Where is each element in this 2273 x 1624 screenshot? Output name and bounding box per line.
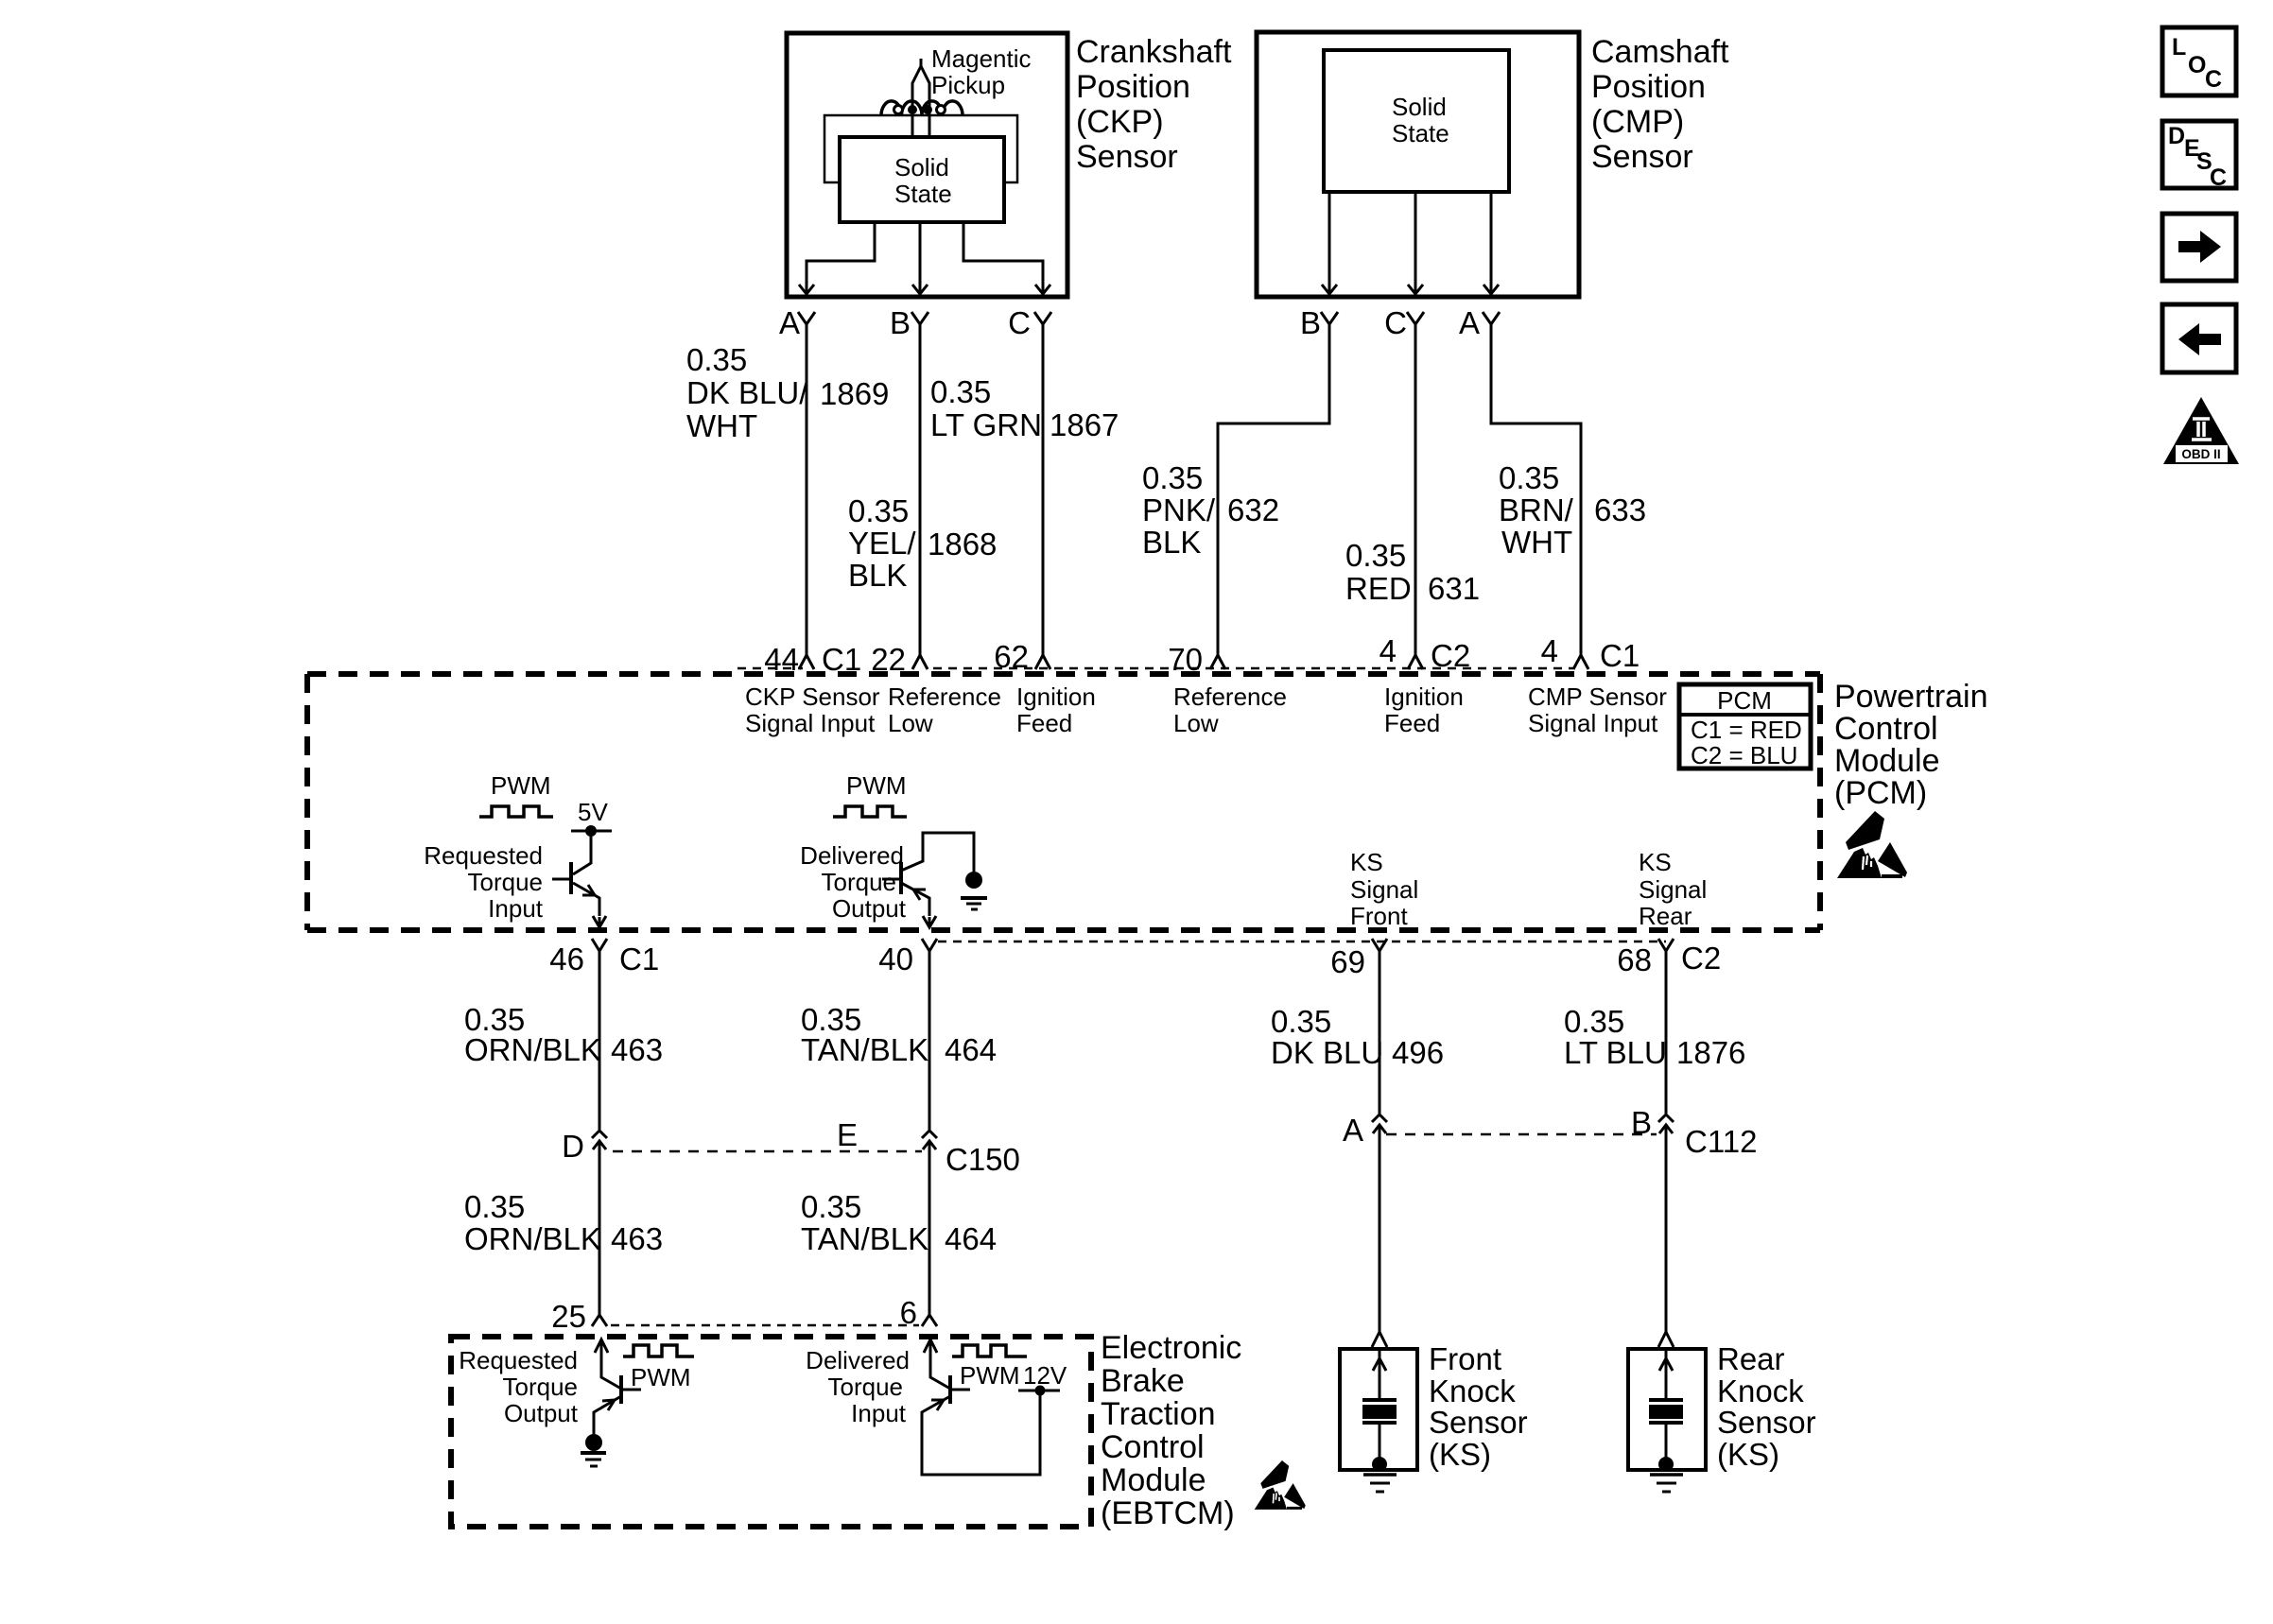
svg-text:CMP Sensor: CMP Sensor <box>1528 682 1667 711</box>
rear KS ground <box>1658 1457 1674 1472</box>
svg-text:6: 6 <box>900 1295 917 1330</box>
rear knock sensor box <box>1628 1349 1706 1470</box>
ESD symbol EBTCM <box>1255 1460 1306 1510</box>
svg-text:(KS): (KS) <box>1429 1437 1491 1472</box>
front KS internal wire with arrow <box>1373 1349 1386 1399</box>
svg-text:Torque: Torque <box>503 1373 579 1401</box>
pin A lambda at PCM C1 <box>799 655 814 669</box>
svg-text:DK BLU/: DK BLU/ <box>686 375 808 410</box>
svg-text:Signal: Signal <box>1350 875 1418 904</box>
svg-text:69: 69 <box>1330 944 1365 979</box>
svg-text:C112: C112 <box>1685 1124 1757 1159</box>
CKP pin A connector <box>798 312 815 655</box>
svg-text:BLK: BLK <box>1142 525 1201 560</box>
svg-text:464: 464 <box>945 1032 997 1067</box>
svg-text:RED: RED <box>1345 571 1412 606</box>
svg-text:Front: Front <box>1429 1341 1501 1376</box>
connector C112 pin B <box>1658 1114 1674 1122</box>
dashed line C112 A-B <box>1386 1133 1657 1136</box>
svg-text:Pickup: Pickup <box>931 71 1005 99</box>
connector C150 pin E <box>922 1131 937 1138</box>
svg-text:C: C <box>2205 66 2222 93</box>
svg-text:C: C <box>1384 305 1407 340</box>
icon: forward arrow box <box>2162 214 2236 281</box>
svg-text:1868: 1868 <box>928 527 997 561</box>
svg-text:Output: Output <box>832 894 907 923</box>
svg-text:Output: Output <box>504 1399 579 1427</box>
icon: DESC box <box>2162 121 2236 191</box>
svg-text:Knock: Knock <box>1717 1373 1804 1408</box>
svg-text:Traction: Traction <box>1101 1396 1216 1432</box>
svg-text:4: 4 <box>1541 633 1558 668</box>
svg-text:Torque: Torque <box>822 868 897 896</box>
ESD symbol PCM <box>1837 811 1907 878</box>
rear KS internal wire with arrow <box>1659 1349 1673 1399</box>
front KS ground <box>1372 1457 1387 1472</box>
svg-text:40: 40 <box>878 942 913 976</box>
pin 62 lambda <box>1035 655 1050 669</box>
svg-text:PWM: PWM <box>491 771 551 800</box>
svg-text:LT GRN: LT GRN <box>930 407 1042 442</box>
svg-text:0.35: 0.35 <box>686 342 747 377</box>
svg-text:C2 = BLU: C2 = BLU <box>1691 741 1797 769</box>
svg-text:Powertrain: Powertrain <box>1834 679 1988 715</box>
svg-text:KS: KS <box>1350 848 1383 876</box>
svg-text:Camshaft: Camshaft <box>1591 34 1729 70</box>
svg-text:Reference: Reference <box>1173 682 1287 711</box>
svg-text:(CMP): (CMP) <box>1591 104 1684 140</box>
svg-text:A: A <box>1343 1113 1363 1148</box>
pin 68 Y connector <box>1658 939 1674 1114</box>
svg-text:State: State <box>1392 119 1449 147</box>
svg-text:Ignition: Ignition <box>1384 682 1464 711</box>
svg-text:Knock: Knock <box>1429 1373 1516 1408</box>
svg-text:Reference: Reference <box>888 682 1001 711</box>
transistor Q2 delivered torque output <box>901 833 974 872</box>
CMP wire A inside <box>1490 192 1493 294</box>
ground G1 <box>965 872 982 889</box>
svg-text:B: B <box>890 305 911 340</box>
svg-text:Module: Module <box>1834 743 1940 779</box>
svg-text:C1 = RED: C1 = RED <box>1691 716 1802 744</box>
svg-text:633: 633 <box>1594 492 1646 527</box>
svg-text:D: D <box>2168 123 2185 149</box>
svg-text:Input: Input <box>488 894 544 923</box>
wire: solid state to pin B <box>919 224 922 294</box>
svg-text:C: C <box>1008 305 1031 340</box>
svg-text:KS: KS <box>1639 848 1672 876</box>
thin dashed connector line top <box>737 667 803 670</box>
svg-text:0.35: 0.35 <box>1499 460 1559 495</box>
ground G2 <box>585 1434 602 1451</box>
svg-text:0.35: 0.35 <box>930 374 991 409</box>
transistor Q3 requested torque output <box>595 1339 621 1389</box>
icon: LOC box <box>2162 27 2236 95</box>
svg-text:0.35: 0.35 <box>1345 538 1406 573</box>
svg-text:A: A <box>1459 305 1480 340</box>
thin dashed line 25-6 <box>611 1324 919 1327</box>
svg-text:Brake: Brake <box>1101 1363 1185 1399</box>
EBTCM dashed box <box>451 1337 1091 1527</box>
icon: OBD II triangle <box>2163 397 2239 464</box>
CMP solid state box <box>1324 50 1509 192</box>
pin 70 lambda <box>1210 655 1225 669</box>
pin 4 C1 lambda <box>1573 655 1588 669</box>
rear KS piezo element <box>1649 1398 1683 1402</box>
CKP pin C connector <box>1034 312 1051 655</box>
svg-text:B: B <box>1631 1105 1652 1140</box>
svg-text:C150: C150 <box>946 1142 1020 1177</box>
svg-text:4: 4 <box>1379 633 1397 668</box>
connector C112 pin A <box>1372 1114 1387 1122</box>
svg-text:631: 631 <box>1428 571 1480 606</box>
svg-text:C1: C1 <box>619 942 659 976</box>
svg-text:LT BLU: LT BLU <box>1564 1035 1667 1070</box>
svg-text:ORN/BLK: ORN/BLK <box>464 1221 601 1256</box>
svg-text:68: 68 <box>1617 942 1652 977</box>
svg-text:Module: Module <box>1101 1462 1206 1498</box>
svg-text:PWM: PWM <box>960 1361 1020 1390</box>
svg-text:70: 70 <box>1168 642 1203 677</box>
svg-text:DK BLU: DK BLU <box>1271 1035 1383 1070</box>
svg-text:PWM: PWM <box>846 771 907 800</box>
svg-text:Signal: Signal <box>1639 875 1707 904</box>
thin dashed connector line bottom <box>938 941 1666 943</box>
svg-text:(EBTCM): (EBTCM) <box>1101 1495 1235 1531</box>
svg-text:Delivered: Delivered <box>806 1346 910 1374</box>
pin 6 lambda <box>922 1315 937 1326</box>
front sensor lambda <box>1372 1332 1387 1347</box>
icon: back arrow box <box>2162 304 2236 372</box>
pin 22 lambda <box>912 655 928 669</box>
PCM legend box <box>1679 684 1811 769</box>
CKP solid state box <box>840 137 1004 222</box>
svg-text:Front: Front <box>1350 902 1408 930</box>
front KS piezo element <box>1362 1398 1397 1402</box>
svg-text:C2: C2 <box>1431 638 1470 673</box>
svg-text:C: C <box>2210 164 2227 191</box>
svg-text:(KS): (KS) <box>1717 1437 1779 1472</box>
svg-text:PNK/: PNK/ <box>1142 492 1216 527</box>
CMP wire B inside <box>1328 192 1331 294</box>
PCM dashed box <box>307 674 1820 930</box>
12V node <box>1018 1390 1060 1392</box>
EBTCM PWM waveform left <box>623 1345 694 1356</box>
wire: solid state to pin A <box>807 224 875 294</box>
svg-text:Sensor: Sensor <box>1429 1405 1528 1440</box>
CMP pin B connector <box>1218 312 1338 655</box>
svg-text:Ignition: Ignition <box>1016 682 1096 711</box>
svg-text:Feed: Feed <box>1016 709 1072 737</box>
svg-text:Electronic: Electronic <box>1101 1330 1241 1366</box>
svg-text:Solid: Solid <box>894 153 949 181</box>
pin 4 C2 lambda <box>1408 655 1423 669</box>
svg-text:Solid: Solid <box>1392 93 1447 121</box>
svg-text:BRN/: BRN/ <box>1499 492 1574 527</box>
svg-text:C1: C1 <box>822 642 861 677</box>
svg-text:Sensor: Sensor <box>1717 1405 1816 1440</box>
pin 40 Y connector <box>922 939 937 1130</box>
svg-text:Control: Control <box>1101 1429 1205 1465</box>
svg-text:Signal Input: Signal Input <box>745 709 876 737</box>
pin 25 lambda <box>592 1315 607 1326</box>
svg-text:D: D <box>562 1129 584 1164</box>
rear sensor lambda <box>1658 1332 1674 1347</box>
CKP sensor outer box <box>787 33 1067 297</box>
svg-text:Input: Input <box>851 1399 907 1427</box>
svg-text:Feed: Feed <box>1384 709 1440 737</box>
EBTCM PWM waveform right <box>952 1345 1027 1356</box>
CKP inner bracket rectangle <box>824 115 1017 182</box>
svg-text:C1: C1 <box>1600 638 1640 673</box>
svg-text:Delivered: Delivered <box>800 841 904 870</box>
wire: solid state to pin C <box>963 224 1043 294</box>
svg-text:Position: Position <box>1076 69 1190 105</box>
svg-text:Sensor: Sensor <box>1591 139 1693 175</box>
svg-text:463: 463 <box>611 1032 663 1067</box>
svg-text:0.35: 0.35 <box>848 493 909 528</box>
svg-text:44: 44 <box>764 642 799 677</box>
svg-text:496: 496 <box>1392 1035 1444 1070</box>
svg-text:Control: Control <box>1834 711 1938 747</box>
svg-text:(CKP): (CKP) <box>1076 104 1164 140</box>
svg-text:O: O <box>2188 52 2206 78</box>
svg-text:0.35: 0.35 <box>1142 460 1203 495</box>
svg-text:0.35: 0.35 <box>1271 1004 1331 1039</box>
svg-text:Torque: Torque <box>468 868 544 896</box>
CMP sensor outer box <box>1257 32 1579 297</box>
transistor Q1 requested torque input <box>573 831 591 874</box>
svg-text:OBD II: OBD II <box>2181 447 2220 461</box>
svg-text:Rear: Rear <box>1717 1341 1785 1376</box>
dashed line C150 D-E <box>613 1150 922 1153</box>
front knock sensor box <box>1340 1349 1417 1470</box>
svg-text:Requested: Requested <box>424 841 543 870</box>
svg-text:0.35: 0.35 <box>1564 1004 1624 1039</box>
svg-text:1876: 1876 <box>1676 1035 1745 1070</box>
svg-text:C2: C2 <box>1681 941 1721 976</box>
svg-text:Position: Position <box>1591 69 1706 105</box>
magnetic pickup arrow <box>912 59 929 138</box>
svg-text:22: 22 <box>871 642 906 677</box>
CKP pin B connector <box>911 312 928 655</box>
CMP wire C inside <box>1414 192 1417 294</box>
svg-text:WHT: WHT <box>686 408 757 443</box>
svg-text:Low: Low <box>888 709 933 737</box>
svg-text:YEL/: YEL/ <box>848 526 916 561</box>
PWM waveform (delivered torque output) <box>833 806 907 817</box>
pickup coil L1 <box>881 101 963 115</box>
svg-text:46: 46 <box>549 942 584 976</box>
svg-text:Crankshaft: Crankshaft <box>1076 34 1232 70</box>
svg-text:TAN/BLK: TAN/BLK <box>801 1221 928 1256</box>
svg-text:12V: 12V <box>1023 1361 1067 1390</box>
svg-text:62: 62 <box>994 639 1029 674</box>
svg-text:Signal Input: Signal Input <box>1528 709 1658 737</box>
svg-text:Requested: Requested <box>459 1346 578 1374</box>
svg-text:BLK: BLK <box>848 558 907 593</box>
transistor Q4 delivered torque input <box>924 1339 950 1389</box>
pin 69 Y connector <box>1372 939 1387 1114</box>
CMP pin A connector <box>1483 312 1581 655</box>
svg-text:0.35: 0.35 <box>464 1189 525 1224</box>
svg-text:1869: 1869 <box>820 376 889 411</box>
svg-text:A: A <box>779 305 800 340</box>
svg-text:Magentic: Magentic <box>931 44 1032 73</box>
svg-text:State: State <box>894 180 952 208</box>
svg-text:CKP Sensor: CKP Sensor <box>745 682 880 711</box>
svg-text:464: 464 <box>945 1221 997 1256</box>
svg-text:463: 463 <box>611 1221 663 1256</box>
5V node <box>571 830 612 833</box>
svg-text:PWM: PWM <box>631 1363 691 1391</box>
svg-text:Rear: Rear <box>1639 902 1692 930</box>
svg-text:WHT: WHT <box>1501 525 1572 560</box>
pin 46 Y connector <box>592 939 607 1130</box>
CMP pin C connector <box>1407 312 1424 655</box>
svg-text:ORN/BLK: ORN/BLK <box>464 1032 601 1067</box>
PWM waveform (requested torque input) <box>479 806 553 817</box>
svg-text:L: L <box>2172 34 2186 60</box>
svg-text:TAN/BLK: TAN/BLK <box>801 1032 928 1067</box>
svg-text:Sensor: Sensor <box>1076 139 1178 175</box>
svg-text:0.35: 0.35 <box>801 1189 861 1224</box>
svg-text:1867: 1867 <box>1050 407 1119 442</box>
connector C150 pin D <box>592 1131 607 1138</box>
svg-text:5V: 5V <box>578 798 608 826</box>
svg-text:B: B <box>1300 305 1321 340</box>
svg-text:632: 632 <box>1227 492 1279 527</box>
svg-text:Torque: Torque <box>828 1373 904 1401</box>
svg-text:PCM: PCM <box>1717 686 1772 715</box>
svg-text:E: E <box>837 1117 858 1152</box>
svg-text:25: 25 <box>551 1299 586 1334</box>
svg-text:Low: Low <box>1173 709 1219 737</box>
svg-text:(PCM): (PCM) <box>1834 775 1927 811</box>
